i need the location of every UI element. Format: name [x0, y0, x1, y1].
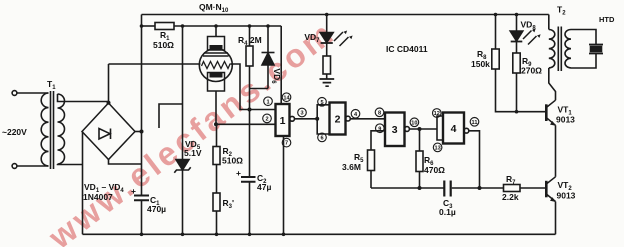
wire pin1: [250, 109, 276, 111]
gate2 input bar: [317, 105, 329, 134]
junction R9 bottom to VT1 base: [515, 110, 519, 114]
capacitor C3: [444, 181, 450, 197]
pin 9 circle: [376, 124, 385, 133]
resistor under VD7: [326, 43, 328, 56]
wire gate1 out: [295, 118, 318, 120]
junction R6 bottom: [418, 186, 422, 190]
wire bridge bottom corner: [109, 160, 142, 165]
svg-text:8: 8: [378, 110, 381, 116]
ac terminal top: [12, 91, 17, 96]
pin 11 circle: [470, 118, 479, 127]
gate4 input bar: [437, 116, 443, 140]
wire pin14 vdd: [280, 26, 282, 104]
pin 8 circle: [375, 108, 384, 117]
sensor bulb: [199, 49, 232, 82]
resistor R6: [419, 129, 421, 151]
pin 7 circle: [282, 138, 291, 147]
transformer T2 core: [558, 27, 561, 72]
pin 14 circle: [282, 93, 291, 102]
bridge rectifier VD1-VD4: [82, 103, 135, 160]
wire mains top: [17, 92, 49, 94]
transformer T2 secondary: [565, 30, 571, 68]
svg-text:9013: 9013: [556, 115, 575, 125]
wire R4-VD6 join: [250, 88, 269, 90]
resistor R4: [249, 26, 251, 46]
svg-text:HTD: HTD: [599, 15, 615, 24]
resistor R5: [368, 150, 375, 171]
resistor R1: [155, 23, 174, 30]
svg-text:3: 3: [392, 124, 398, 136]
svg-text:5.1V: 5.1V: [184, 148, 202, 158]
pin 13 circle: [433, 143, 442, 152]
svg-text:1: 1: [280, 115, 286, 127]
gate U2: [330, 103, 346, 135]
5.1V rail: [142, 25, 156, 27]
junction R3 ground: [215, 233, 219, 237]
junction R4 top: [248, 24, 252, 28]
junction R6 top: [418, 127, 422, 131]
svg-text:2: 2: [265, 117, 268, 123]
junction bridge plus output: [140, 130, 144, 134]
timing wire: [371, 187, 444, 189]
wire secondary bottom: [58, 163, 83, 166]
junction gate2 tied inputs: [315, 117, 319, 121]
svg-text:+: +: [236, 168, 241, 178]
node R4 bottom to pin1: [248, 108, 252, 112]
junction rectifier output to 5.1V rail: [140, 24, 144, 28]
pin 4 circle: [351, 110, 360, 119]
svg-text:+: +: [131, 186, 136, 196]
pin 6 circle: [318, 133, 327, 142]
pin 2 circle: [263, 114, 272, 123]
wire gate4 out: [469, 131, 480, 188]
wire zener branch: [182, 26, 184, 160]
wire pin7: [283, 136, 285, 234]
resistor R7: [504, 185, 521, 192]
junction gate4 output to R7: [478, 186, 482, 190]
junction sensor top electrode: [214, 24, 218, 28]
wire heater return: [231, 64, 250, 110]
sensor QM-N10 top stub: [215, 26, 217, 37]
junction VD5 ground: [181, 233, 185, 237]
svg-text:470µ: 470µ: [147, 204, 166, 214]
pin 12 circle: [433, 109, 442, 118]
wire mains bottom: [17, 165, 49, 167]
watermark www.elecfans.com: [41, 13, 342, 247]
junction VD6 top: [266, 24, 270, 28]
wire node to C2: [249, 89, 251, 178]
svg-text:11: 11: [472, 120, 478, 126]
sensor top electrode: [208, 37, 225, 51]
wire stub node A: [159, 104, 183, 128]
svg-text:9013: 9013: [557, 191, 576, 201]
transformer T1 core: [51, 91, 54, 169]
bridge diode symbol: [99, 129, 110, 140]
resistor R2: [216, 124, 218, 146]
svg-text:4: 4: [451, 123, 457, 135]
resistor R3': [216, 165, 218, 194]
svg-text:10: 10: [411, 120, 417, 126]
wire secondary top to bridge: [58, 94, 109, 102]
transformer T1 primary: [41, 93, 48, 166]
svg-text:IC CD4011: IC CD4011: [386, 44, 428, 54]
pin 5 circle: [318, 98, 327, 107]
capacitor C1: [134, 196, 149, 201]
transistor VT1: [545, 104, 548, 121]
bottom rail: [83, 233, 556, 235]
svg-text:3.6M: 3.6M: [342, 162, 361, 172]
top rail: [142, 14, 549, 16]
resistor R9: [516, 42, 518, 54]
svg-text:150k: 150k: [471, 59, 490, 69]
LED VD7: [326, 15, 328, 33]
wire heater feed: [109, 63, 201, 65]
svg-text:47µ: 47µ: [257, 182, 271, 192]
svg-text:2: 2: [335, 114, 341, 126]
svg-text:2.2k: 2.2k: [502, 192, 519, 202]
capacitor C2: [241, 177, 256, 182]
junction C2 ground: [248, 233, 252, 237]
resistor R8: [495, 15, 497, 50]
svg-text:14: 14: [283, 95, 290, 101]
node sensor output to pin2: [214, 122, 218, 126]
gate U1: [276, 104, 290, 136]
wire bridge right corner to + rail: [135, 131, 142, 133]
diode VD6: [267, 26, 269, 53]
svg-text:~220V: ~220V: [2, 127, 27, 137]
wire bridge left corner to ground rail: [82, 132, 84, 235]
junction bridge ac top corner: [107, 101, 111, 105]
sensor bottom electrode: [208, 73, 225, 92]
pin 3 circle: [298, 108, 307, 117]
wire gate3 out: [409, 128, 437, 130]
wire below C1: [141, 200, 143, 234]
wire sensor bottom: [215, 92, 217, 125]
junction pin7 ground: [282, 233, 286, 237]
svg-text:470Ω: 470Ω: [424, 165, 445, 175]
sensor heater zigzag: [202, 62, 234, 69]
buzzer HTD loop: [571, 30, 596, 45]
svg-text:13: 13: [434, 146, 440, 152]
svg-text:9: 9: [378, 126, 381, 132]
+ rail vertical: [141, 15, 143, 196]
gate U3: [385, 113, 405, 147]
svg-text:510Ω: 510Ω: [153, 40, 174, 50]
svg-text:1N4007: 1N4007: [83, 192, 113, 202]
wire VT1 emitter to VT2 collector: [555, 125, 557, 177]
ground: [320, 79, 335, 86]
junction C1 ground: [140, 233, 144, 237]
transformer T2 primary: [549, 30, 555, 68]
junction VD7 top: [325, 13, 329, 17]
buzzer HTD element: [589, 45, 603, 54]
svg-text:1: 1: [266, 99, 269, 105]
svg-text:510Ω: 510Ω: [222, 156, 243, 166]
LED VD8: [516, 15, 518, 32]
svg-text:7: 7: [285, 141, 288, 147]
junction R8 top: [494, 13, 498, 17]
svg-text:12: 12: [434, 111, 440, 117]
svg-text:0.1µ: 0.1µ: [439, 207, 456, 217]
pin 1 circle: [264, 97, 273, 106]
wire gate2 out: [350, 118, 385, 120]
wire VT1 collector up: [549, 68, 556, 100]
svg-text:6: 6: [320, 136, 323, 142]
wire pin9: [371, 131, 385, 150]
wire VT2 emitter: [555, 202, 557, 235]
pin 10 circle: [410, 118, 419, 127]
junction VD8 top: [515, 13, 519, 17]
ac terminal bottom: [12, 164, 17, 169]
wire bridge top corner up to heater: [108, 64, 110, 103]
zener diode VD5: [176, 160, 189, 171]
sensor electrode lines: [203, 53, 229, 56]
transistor VT2: [545, 181, 548, 198]
junction VD5 top: [181, 24, 185, 28]
gate U4: [443, 113, 464, 144]
wire pin2: [216, 123, 276, 125]
svg-text:3: 3: [300, 111, 303, 117]
transformer T1 secondary: [58, 94, 65, 164]
svg-text:270Ω: 270Ω: [521, 66, 542, 76]
svg-text:5: 5: [320, 100, 323, 106]
